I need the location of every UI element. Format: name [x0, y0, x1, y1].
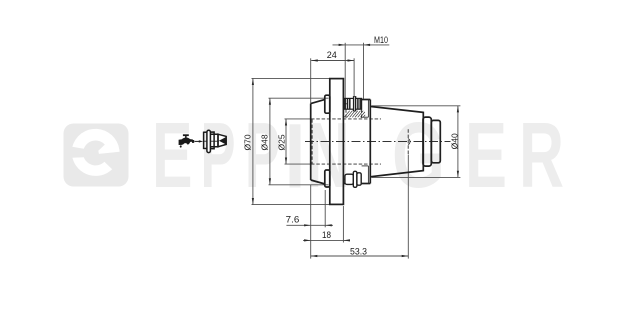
- svg-text:18: 18: [322, 230, 331, 240]
- svg-text:R: R: [519, 103, 564, 207]
- svg-text:Ø70: Ø70: [242, 134, 252, 150]
- svg-text:E: E: [152, 103, 193, 207]
- svg-text:Ø40: Ø40: [449, 133, 459, 149]
- svg-text:M10: M10: [374, 35, 388, 45]
- svg-text:24: 24: [327, 50, 337, 60]
- svg-text:53.3: 53.3: [350, 247, 367, 257]
- svg-text:P: P: [201, 103, 236, 207]
- svg-text:P: P: [245, 103, 280, 207]
- svg-text:7.6: 7.6: [286, 215, 300, 225]
- svg-text:G: G: [392, 103, 445, 207]
- svg-text:Ø25: Ø25: [276, 134, 286, 150]
- svg-text:E: E: [465, 103, 507, 207]
- svg-text:Ø48: Ø48: [260, 134, 270, 150]
